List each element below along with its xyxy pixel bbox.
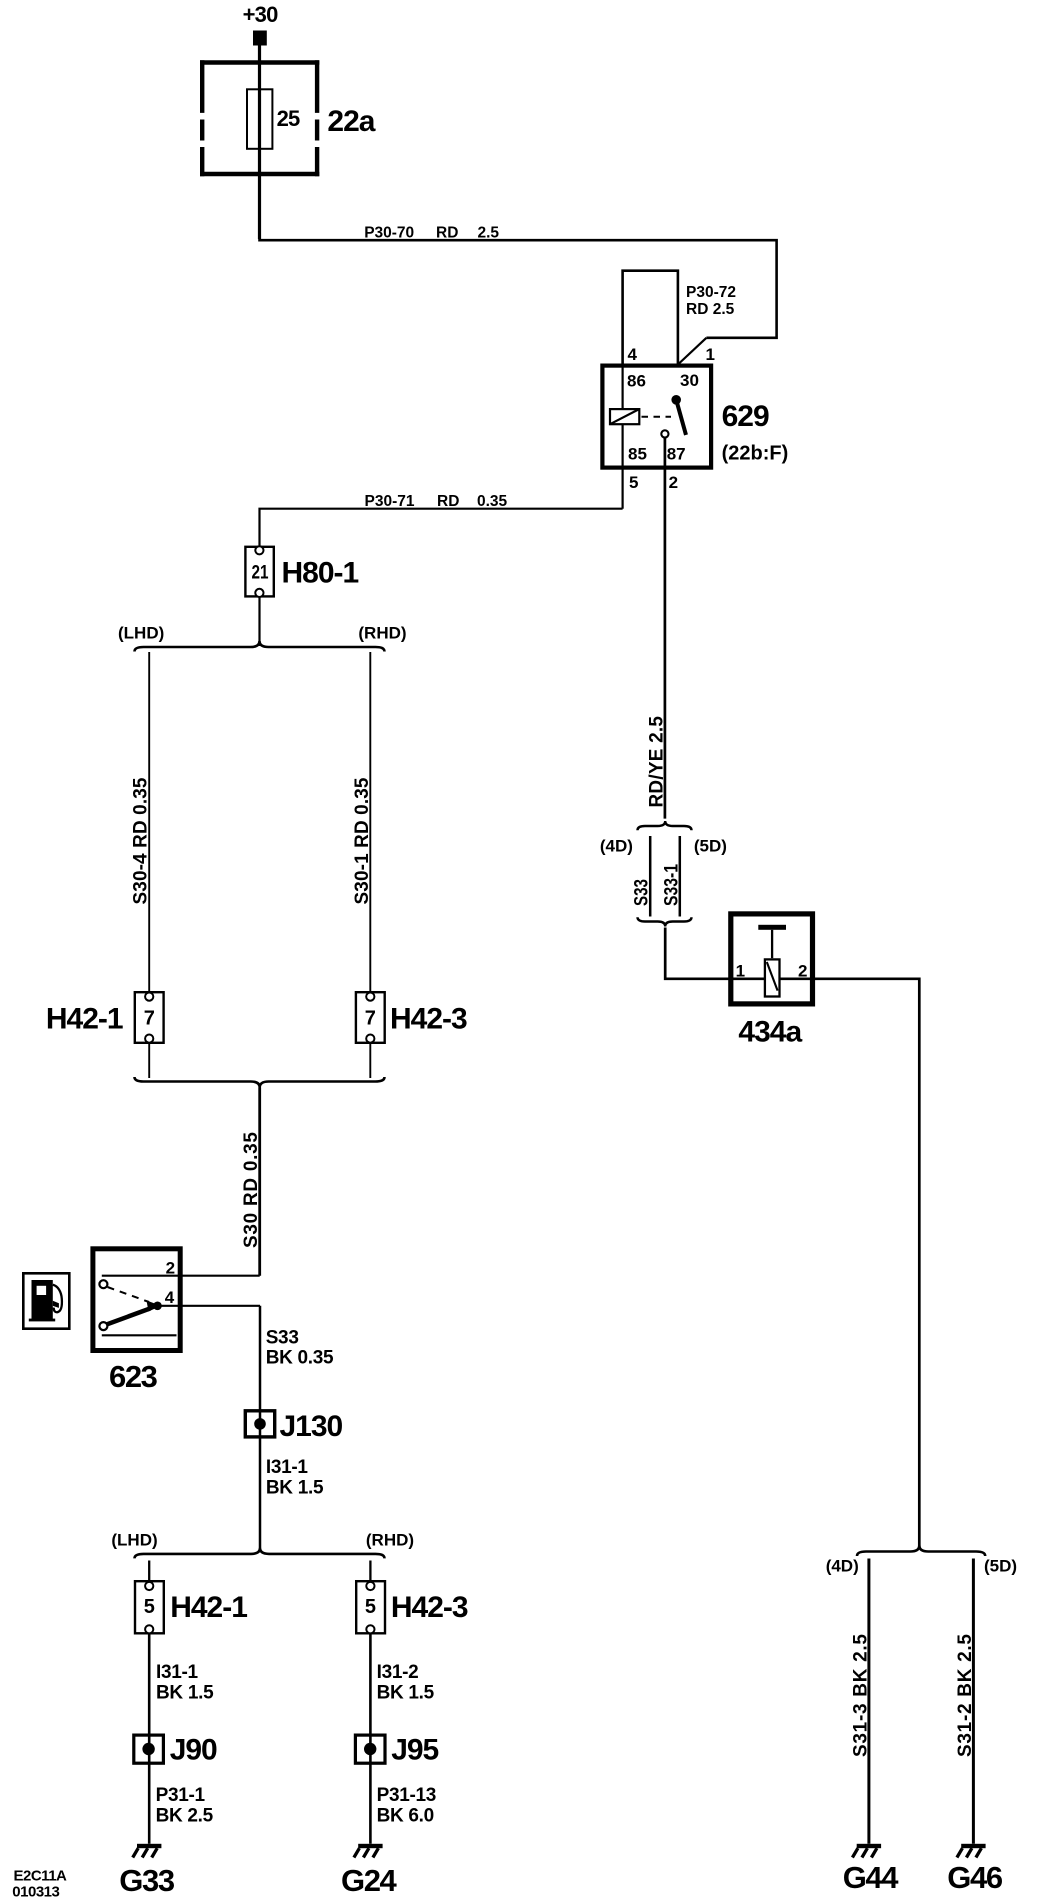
wire S30-4 LHD branch: [148, 652, 150, 992]
svg-text:4: 4: [165, 1288, 175, 1307]
fuse box 22a dashed enclosure: [200, 60, 319, 176]
svg-text:1: 1: [706, 345, 715, 364]
svg-text:P31-13BK 6.0: P31-13BK 6.0: [377, 1785, 436, 1827]
623 pin 4 stub wire: [158, 1305, 260, 1307]
svg-text:RD/YE 2.5: RD/YE 2.5: [647, 716, 668, 808]
434a pump element: [765, 959, 780, 996]
wire LHD branch to H42-1 pin5: [148, 1561, 150, 1582]
svg-text:G44: G44: [843, 1860, 900, 1895]
svg-text:434a: 434a: [738, 1016, 802, 1049]
623 upper contact circle: [99, 1280, 107, 1288]
svg-text:S30-1 RD 0.35: S30-1 RD 0.35: [352, 777, 373, 904]
wire S30 to sender 623: [258, 1088, 261, 1276]
junction brace split LHD/RHD: [135, 641, 385, 652]
svg-text:S30 RD 0.35: S30 RD 0.35: [241, 1132, 262, 1248]
wire I31-1 to J90 to G33: [148, 1634, 151, 1844]
svg-text:H42-3: H42-3: [390, 1003, 467, 1036]
svg-text:G33: G33: [119, 1863, 175, 1898]
relay coil-contact dashed link: [642, 416, 672, 418]
wire S30-1 RHD branch: [369, 652, 371, 992]
wire P30-70 from fuse to relay feed: [258, 240, 776, 338]
svg-text:H42-1: H42-1: [170, 1591, 247, 1624]
svg-text:5: 5: [365, 1596, 376, 1618]
svg-text:P30-72RD 2.5: P30-72RD 2.5: [686, 284, 736, 318]
434a T-bar: [758, 925, 786, 930]
ground G44 symbol: [852, 1844, 881, 1858]
junction brace 4D/5D grounds: [857, 1546, 985, 1557]
splice J95: [355, 1735, 385, 1763]
connector H42-1 pin 7: [135, 992, 164, 1043]
svg-text:S31-2 BK 2.5: S31-2 BK 2.5: [955, 1634, 976, 1757]
svg-text:21: 21: [252, 563, 269, 584]
svg-text:7: 7: [144, 1008, 155, 1030]
wire +30 to fuse box: [258, 44, 261, 239]
svg-text:(LHD): (LHD): [111, 1531, 157, 1550]
wire to 434a pin1 and through to right: [665, 928, 919, 1549]
wire S31-2 to G46: [972, 1559, 975, 1844]
relay contact 87 circle: [661, 430, 668, 437]
svg-text:85: 85: [628, 445, 647, 464]
svg-text:S33-1: S33-1: [662, 864, 683, 906]
svg-text:S33: S33: [632, 879, 653, 906]
connector H42-1 pin 5: [135, 1581, 164, 1633]
wire relay pins 4-1 supply loop: [623, 271, 678, 366]
wire S33-1 5D variant: [679, 836, 682, 917]
svg-text:2: 2: [669, 473, 678, 492]
fuel level sender 623 box: [93, 1249, 180, 1351]
wire relay pin2 RD/YE down: [664, 438, 667, 819]
ground G46 symbol: [957, 1844, 986, 1858]
623 dashed wiper link: [108, 1287, 150, 1302]
svg-text:P30-71RD0.35: P30-71RD0.35: [365, 493, 508, 510]
junction brace merge to S30: [135, 1077, 385, 1088]
wire H80-1 to junction brace: [258, 597, 260, 646]
svg-text:87: 87: [667, 445, 686, 464]
svg-text:(5D): (5D): [984, 1557, 1017, 1576]
svg-text:H42-1: H42-1: [46, 1003, 123, 1036]
svg-text:25: 25: [277, 106, 300, 131]
svg-text:G46: G46: [947, 1860, 1003, 1895]
623 lower contact circle: [99, 1322, 107, 1330]
fuel pump 434a box: [731, 914, 813, 1004]
svg-text:1: 1: [736, 962, 745, 981]
fuse element 25: [247, 89, 272, 149]
svg-text:(4D): (4D): [826, 1557, 859, 1576]
svg-text:+30: +30: [243, 2, 278, 27]
junction brace 4D/5D merge: [638, 917, 692, 926]
svg-text:S31-3 BK 2.5: S31-3 BK 2.5: [850, 1634, 871, 1757]
svg-text:5: 5: [629, 473, 638, 492]
svg-text:(5D): (5D): [694, 837, 727, 856]
623 wiper arrowhead junction: [147, 1301, 162, 1312]
splice J130: [245, 1411, 274, 1437]
svg-text:2: 2: [166, 1259, 175, 1278]
svg-text:(4D): (4D): [600, 837, 633, 856]
svg-text:H80-1: H80-1: [282, 557, 359, 590]
connector H80-1 pin 21: [245, 546, 273, 597]
ground G33 symbol: [133, 1844, 162, 1858]
623 lower contact stub: [102, 1334, 177, 1336]
svg-text:(LHD): (LHD): [118, 624, 164, 643]
terminal +30 square: [253, 31, 267, 46]
relay coil: [610, 409, 639, 424]
relay contact 30 dot: [671, 395, 681, 405]
relay 629 box: [602, 366, 711, 468]
wire diagonal into relay pin 1: [678, 338, 707, 365]
wire I31-2 to J95 to G24: [369, 1634, 372, 1844]
svg-text:S30-4 RD 0.35: S30-4 RD 0.35: [131, 777, 152, 904]
wire S33 4D variant: [649, 836, 652, 917]
svg-text:(RHD): (RHD): [358, 624, 406, 643]
svg-text:(RHD): (RHD): [366, 1531, 414, 1550]
svg-text:7: 7: [365, 1008, 376, 1030]
wire 623 pin4 S33 down through J130: [259, 1306, 262, 1548]
434a stem: [771, 930, 773, 958]
wire relay coil to pin 5: [621, 364, 623, 509]
svg-text:2: 2: [798, 962, 807, 981]
svg-text:22a: 22a: [327, 105, 375, 138]
wire P30-71 to H80-1: [260, 509, 623, 547]
svg-text:629: 629: [722, 400, 769, 433]
splice J90: [134, 1735, 164, 1763]
svg-text:H42-3: H42-3: [391, 1591, 468, 1624]
fuel pump pictogram: [23, 1273, 69, 1328]
wire RHD branch to H42-3 pin5: [369, 1561, 371, 1582]
623 wiper lever: [107, 1309, 151, 1325]
svg-text:J90: J90: [170, 1733, 217, 1766]
connector H42-3 pin 5: [356, 1581, 385, 1633]
connector H42-3 pin 7: [356, 992, 385, 1043]
svg-text:86: 86: [627, 372, 646, 391]
svg-text:G24: G24: [341, 1863, 398, 1898]
wire below H42-1 pin7: [148, 1043, 150, 1078]
svg-text:4: 4: [628, 345, 638, 364]
wire S31-3 to G44: [867, 1559, 870, 1844]
svg-text:30: 30: [680, 371, 699, 390]
svg-text:J95: J95: [391, 1733, 438, 1766]
svg-text:5: 5: [144, 1596, 155, 1618]
junction brace split LHD/RHD lower: [135, 1548, 385, 1559]
svg-text:J130: J130: [280, 1410, 343, 1443]
ground G24 symbol: [354, 1844, 383, 1858]
623 pin 2 stub wire: [102, 1275, 260, 1277]
svg-text:(22b:F): (22b:F): [722, 443, 789, 465]
svg-text:E2C11A010313: E2C11A010313: [12, 1868, 67, 1901]
junction brace 4D/5D split: [638, 821, 692, 830]
svg-text:623: 623: [109, 1359, 158, 1394]
relay switch lever: [676, 400, 686, 435]
wire below H42-3 pin7: [369, 1043, 371, 1078]
